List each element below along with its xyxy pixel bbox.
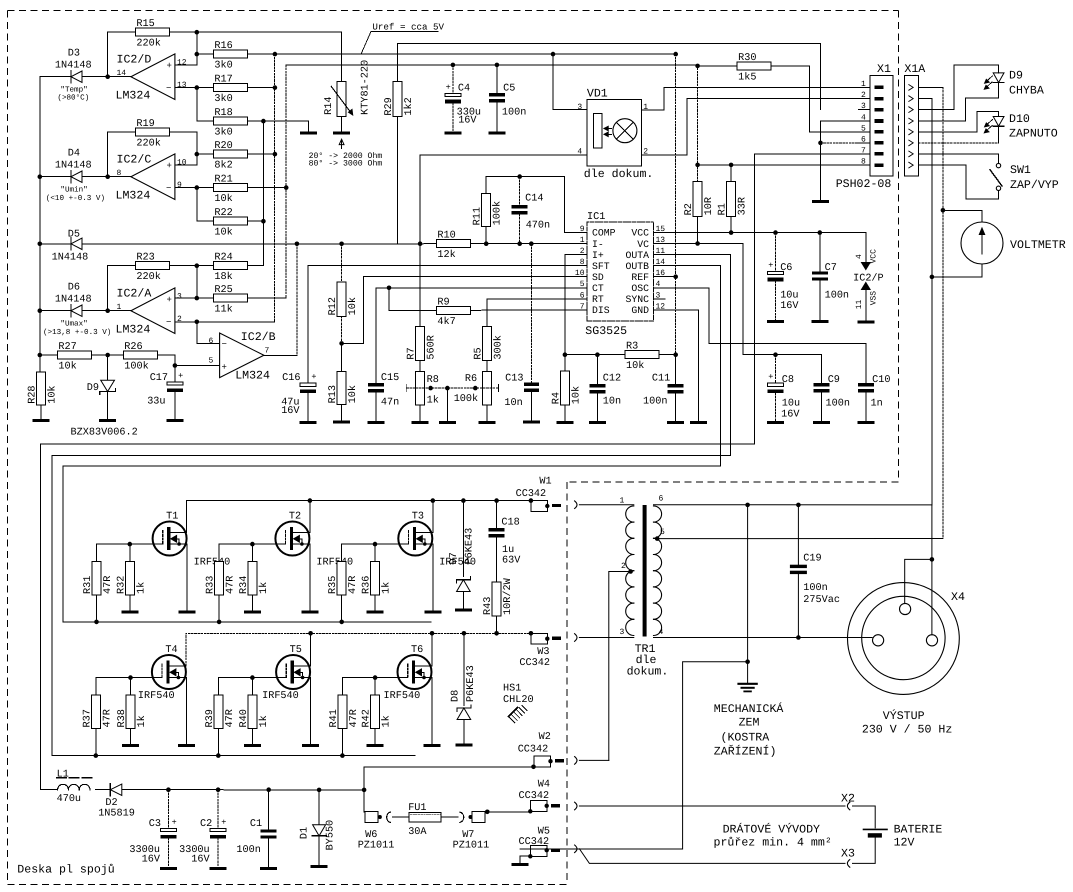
svg-text:R7: R7: [407, 347, 418, 359]
wire SW1 bottom to X1A pin8: [919, 165, 999, 199]
node R2 bottom VC: [695, 241, 700, 246]
svg-text:C5: C5: [503, 83, 515, 94]
wire TR1 pin2 tap: [628, 569, 633, 574]
wire R19 left to opamp output: [108, 132, 136, 177]
wire bus2 OUTA: [52, 455, 731, 755]
fuse FU1 30A: [393, 816, 410, 818]
svg-text:VOLTMETR: VOLTMETR: [1010, 239, 1066, 252]
wire IC2/B +input row: [175, 365, 220, 367]
wire R30 right to X1 pin5: [771, 66, 858, 132]
ground IC1 pin12: [690, 421, 707, 424]
node D4 opamp output: [105, 174, 110, 179]
capacitor C5: [496, 65, 498, 93]
svg-text:1k: 1k: [381, 582, 393, 594]
svg-text:C14: C14: [525, 194, 543, 205]
node R2 top pin8 row: [695, 163, 700, 168]
node R21 left / -input: [195, 185, 200, 190]
wire gnd vertical rail B: [262, 121, 264, 266]
ground R34: [244, 611, 261, 614]
svg-text:LM324: LM324: [235, 370, 270, 383]
svg-text:16V: 16V: [458, 116, 477, 127]
svg-text:T6: T6: [411, 645, 423, 656]
wire 12V rail horizontal: [286, 64, 697, 66]
svg-text:12k: 12k: [437, 249, 455, 261]
svg-text:HS1: HS1: [503, 684, 521, 695]
ground C11: [667, 421, 684, 424]
node R20-Vref: [273, 152, 278, 157]
wire gate row T4: [96, 677, 152, 679]
resistor R12: [341, 244, 343, 282]
connector X4 outer: [848, 583, 960, 695]
connector W3 CC342: [529, 631, 534, 636]
svg-text:10k: 10k: [58, 361, 76, 373]
node C17 top / +input: [173, 363, 178, 368]
IC IC1 SG3525 body: [587, 222, 654, 321]
wire R3 right to REF vertical: [659, 354, 676, 356]
trimmer R6: [482, 371, 491, 405]
svg-text:CT: CT: [592, 283, 604, 294]
node R3-REF-C11: [673, 352, 678, 357]
svg-text:T2: T2: [289, 512, 301, 523]
resistor R37: [95, 678, 97, 695]
svg-text:10k: 10k: [47, 385, 59, 403]
svg-text:"Umin": "Umin": [60, 186, 87, 195]
svg-text:C2: C2: [200, 819, 212, 830]
resistor R3: [625, 351, 659, 359]
svg-text:I+: I+: [592, 250, 604, 261]
svg-text:C6: C6: [780, 263, 792, 274]
ground C4: [444, 132, 461, 135]
svg-text:C15: C15: [381, 373, 399, 384]
svg-text:+: +: [167, 61, 172, 71]
node D6 opamp output: [105, 308, 110, 313]
capacitor C8: [775, 355, 777, 384]
svg-text:10k: 10k: [347, 385, 359, 403]
svg-text:220k: 220k: [136, 138, 160, 150]
svg-text:D9: D9: [87, 383, 99, 394]
resistor R24: [213, 262, 247, 270]
svg-text:T5: T5: [290, 645, 302, 656]
node REF pin16: [673, 274, 678, 279]
svg-text:D8: D8: [451, 690, 462, 702]
resistor R17: [213, 84, 247, 92]
resistor R41: [341, 678, 343, 695]
svg-text:2: 2: [621, 562, 626, 571]
ground C6: [767, 320, 784, 323]
op-amp IC2/B: [220, 333, 264, 378]
resistor R20: [213, 150, 247, 158]
svg-text:R42: R42: [362, 709, 373, 727]
svg-text:PSH02-08: PSH02-08: [836, 178, 892, 191]
ground D1: [311, 865, 328, 868]
transistor T4: [152, 655, 186, 689]
wire R15 right to R14: [169, 32, 341, 81]
fuse holder contact W6: [387, 812, 391, 823]
svg-text:COMP: COMP: [592, 228, 616, 239]
resistor R19: [135, 128, 169, 136]
svg-text:ZAŘÍZENÍ): ZAŘÍZENÍ): [714, 745, 777, 759]
svg-text:47R: 47R: [103, 576, 114, 594]
node D6 bus: [38, 308, 43, 313]
svg-text:D2: D2: [105, 798, 117, 809]
wire R29 bottom to row: [396, 117, 398, 244]
svg-text:(>13,8 +-0.3 V): (>13,8 +-0.3 V): [43, 328, 111, 337]
svg-text:IRF540: IRF540: [316, 558, 353, 569]
wire X4 right pin net: [930, 557, 935, 562]
svg-text:470u: 470u: [57, 794, 81, 805]
wire VD1 pin3 from Vref rail: [553, 54, 587, 109]
svg-text:1k: 1k: [258, 582, 270, 594]
svg-text:R18: R18: [214, 108, 232, 119]
svg-text:LM324: LM324: [116, 90, 151, 103]
wire VCC pin15 row: [676, 232, 866, 234]
transistor T6: [398, 655, 432, 689]
svg-text:13: 13: [177, 81, 187, 90]
wire R16 right to Vref rail: [247, 53, 275, 55]
wire drain T3: [431, 501, 434, 533]
capacitor C12: [596, 355, 598, 384]
svg-text:47R: 47R: [349, 709, 360, 727]
optocoupler VD1: [587, 99, 642, 166]
svg-text:LM324: LM324: [116, 190, 151, 203]
svg-text:470n: 470n: [526, 221, 550, 232]
X1 pin contacts: [875, 86, 884, 90]
wire IC2/B -input jog: [197, 322, 220, 344]
svg-text:R31: R31: [83, 576, 94, 594]
voltmeter P1: [961, 222, 1003, 264]
ground T6 source: [424, 744, 441, 747]
svg-text:(KOSTRA: (KOSTRA: [721, 732, 770, 745]
capacitor C13: [530, 244, 532, 383]
svg-text:CC342: CC342: [519, 658, 550, 669]
capacitor C10: [858, 383, 874, 386]
wire drain T5: [309, 633, 312, 666]
wire drain bus upper: [186, 501, 531, 533]
svg-text:(>80°C): (>80°C): [57, 94, 89, 103]
node D5 bus: [38, 242, 43, 247]
transistor T2: [275, 522, 309, 556]
capacitor C2: [216, 787, 221, 792]
svg-text:D4: D4: [68, 149, 80, 160]
svg-text:D10: D10: [1009, 113, 1030, 126]
svg-text:4k7: 4k7: [437, 316, 455, 328]
svg-text:1k: 1k: [258, 715, 270, 727]
svg-text:OUTB: OUTB: [625, 261, 649, 272]
svg-text:CC342: CC342: [519, 837, 550, 848]
svg-text:R34: R34: [239, 576, 250, 594]
wire R17 right to Vref rail: [247, 87, 275, 89]
wire source T5 to ground: [309, 678, 312, 745]
resistor R15: [135, 28, 169, 36]
svg-text:C17: C17: [150, 373, 168, 384]
ground D9: [99, 419, 116, 422]
svg-text:100n: 100n: [825, 290, 849, 301]
capacitor C4: [452, 65, 454, 93]
svg-text:R36: R36: [362, 576, 373, 594]
svg-text:1: 1: [643, 103, 648, 112]
wire X1A pin5 to LED D10: [919, 112, 999, 132]
transformer TR1 secondary: [654, 506, 662, 522]
svg-text:275Vac: 275Vac: [803, 595, 840, 606]
svg-text:R21: R21: [214, 175, 232, 186]
wire R18 right to ground: [247, 121, 308, 132]
svg-text:16V: 16V: [780, 301, 799, 312]
svg-text:R20: R20: [214, 141, 232, 152]
wire R26 right corner down: [157, 355, 175, 382]
node R16 left: [195, 52, 200, 57]
svg-text:12: 12: [177, 58, 187, 67]
wire 12V vertical rail C: [285, 65, 287, 298]
resistor R31: [96, 544, 98, 561]
svg-text:R38: R38: [117, 709, 128, 727]
wire source T6 to ground: [430, 678, 433, 745]
wire R25 right to 12V rail: [247, 297, 286, 299]
svg-text:C12: C12: [603, 374, 621, 385]
svg-text:Deska pl spojů: Deska pl spojů: [17, 864, 114, 877]
svg-text:IRF540: IRF540: [138, 691, 175, 702]
svg-text:IC1: IC1: [587, 212, 605, 223]
wire R15 left to opamp output: [108, 32, 136, 76]
svg-text:PZ1011: PZ1011: [358, 841, 395, 852]
svg-text:FU1: FU1: [408, 803, 426, 814]
svg-text:10k: 10k: [347, 297, 359, 315]
ground C15: [368, 421, 385, 424]
wire COMP pin9 up to C14 row: [564, 177, 567, 233]
resistor R28: [37, 372, 46, 405]
svg-text:R27: R27: [58, 342, 76, 353]
wire X1A pin7 to SW1: [919, 154, 999, 164]
voltmeter connection bottom: [932, 264, 982, 277]
node R25 left: [195, 296, 200, 301]
svg-text:D3: D3: [68, 49, 80, 60]
svg-text:1N4148: 1N4148: [52, 252, 89, 263]
wire W5 to ground: [520, 856, 530, 863]
resistor R40: [250, 675, 255, 680]
VD1 lamp: [613, 119, 637, 143]
resistor R21: [213, 184, 247, 192]
resistor R11: [482, 193, 491, 226]
wire source T3 to ground: [431, 544, 434, 611]
connector W1 CC342: [529, 498, 534, 503]
svg-text:I-: I-: [592, 239, 604, 250]
svg-text:P6KE43: P6KE43: [466, 665, 477, 702]
svg-text:průřez min. 4 mm²: průřez min. 4 mm²: [714, 836, 832, 849]
svg-text:10k: 10k: [626, 360, 644, 372]
svg-text:R39: R39: [205, 709, 216, 727]
svg-text:dokum.: dokum.: [627, 666, 669, 679]
node C8 top: [773, 352, 778, 357]
node mech ground row: [745, 659, 750, 664]
thermistor R14 KTY81-220: [337, 82, 346, 117]
wire R23 to R24 with +input tap: [169, 265, 213, 267]
transil D7 P6KE43: [461, 498, 466, 503]
node W6 tap: [362, 788, 367, 793]
connector X1A: [904, 76, 918, 176]
wire X1A pin3 to LED D9: [919, 65, 999, 110]
ground R4: [556, 421, 573, 424]
diode D3: [40, 76, 71, 78]
node R10 left / R7 top: [418, 241, 423, 246]
wire gate row T6: [342, 677, 397, 679]
ground C16: [300, 421, 317, 424]
svg-text:100n: 100n: [826, 398, 850, 409]
svg-text:CC342: CC342: [518, 745, 549, 756]
svg-text:R30: R30: [738, 53, 756, 64]
wire Vref vertical rail: [274, 54, 276, 322]
svg-text:+: +: [167, 295, 172, 305]
svg-text:16V: 16V: [781, 410, 800, 421]
svg-text:R14: R14: [324, 97, 335, 115]
svg-text:30A: 30A: [408, 827, 427, 838]
wire OUTB gate bus upper: [63, 621, 431, 623]
svg-text:100n: 100n: [803, 583, 827, 594]
wire CT pin5 route to C15: [376, 288, 565, 383]
ground C2: [210, 867, 227, 870]
node pin6 gnd: [818, 141, 823, 146]
svg-text:W6: W6: [365, 830, 377, 841]
resistor R33: [218, 544, 220, 561]
svg-text:100n: 100n: [236, 845, 260, 856]
resistor R16: [213, 50, 247, 58]
wire minus input row to R21: [175, 187, 214, 189]
svg-text:6: 6: [659, 495, 664, 504]
wire GND pin12 route: [676, 310, 699, 421]
node R27 bus / R28 top: [38, 353, 43, 358]
svg-text:+: +: [172, 817, 177, 827]
svg-text:R5: R5: [473, 347, 484, 359]
svg-text:33u: 33u: [147, 396, 165, 407]
svg-text:16V: 16V: [142, 855, 161, 866]
transformer TR1 core: [643, 505, 647, 637]
ground R28: [33, 419, 50, 422]
harness arrow W1-TR1 pin1: [575, 501, 577, 509]
capacitor C6: [773, 230, 778, 235]
LED D10 arrows: [987, 120, 993, 125]
svg-text:10k: 10k: [214, 193, 232, 205]
svg-text:"Temp": "Temp": [60, 86, 87, 95]
transistor T5: [276, 655, 310, 689]
svg-text:+: +: [446, 82, 451, 92]
svg-text:+: +: [222, 362, 227, 372]
capacitor C1: [266, 787, 271, 792]
IC1 right pin stubs: [654, 232, 677, 234]
svg-text:L1: L1: [57, 770, 69, 781]
capacitor C15: [368, 383, 384, 386]
ground wiper: [446, 388, 448, 421]
wire X1 pin8 row: [698, 164, 859, 166]
svg-text:−: −: [166, 83, 171, 93]
wire Vref rail horizontal: [275, 53, 676, 55]
svg-text:OSC: OSC: [631, 283, 649, 294]
svg-text:DRÁTOVÉ VÝVODY: DRÁTOVÉ VÝVODY: [723, 823, 820, 837]
svg-text:+: +: [221, 817, 226, 827]
svg-text:W1: W1: [539, 476, 551, 487]
node C19 top: [796, 503, 801, 508]
wire +input row to R25: [175, 297, 214, 299]
earth ground mech zem: [739, 683, 757, 685]
ground C3: [160, 867, 177, 870]
svg-text:+: +: [768, 260, 773, 270]
svg-text:VC: VC: [637, 239, 649, 250]
node mech ground tap: [745, 503, 750, 508]
wire SFT pin8 route to C16: [308, 266, 565, 383]
resistor R36: [373, 542, 378, 547]
wire R21 right to 12V rail: [247, 187, 286, 189]
svg-text:X1: X1: [877, 63, 891, 76]
svg-text:C19: C19: [803, 554, 821, 565]
resistor R1: [727, 181, 736, 216]
ground T3 source: [424, 611, 441, 614]
svg-text:SW1: SW1: [1010, 164, 1031, 177]
wire R23 left to opamp output: [108, 266, 136, 311]
svg-text:220k: 220k: [136, 38, 160, 50]
ground W5: [512, 863, 529, 866]
node R18 right: [261, 119, 266, 124]
node R30 left on 12V rail: [695, 64, 700, 69]
wire minus input row to R17: [175, 87, 214, 89]
ground C5: [488, 132, 505, 135]
svg-text:R32: R32: [116, 576, 127, 594]
ground R42: [367, 744, 384, 747]
svg-text:D6: D6: [68, 283, 80, 294]
svg-text:C8: C8: [782, 375, 794, 386]
connector X1 PSH02-08: [870, 76, 893, 176]
node R21-12V: [284, 185, 289, 190]
ground T1 source: [179, 611, 196, 614]
resistor R4: [560, 371, 569, 405]
svg-text:C16: C16: [282, 373, 300, 384]
ground C9: [813, 421, 830, 424]
power symbol IC2/P VSS: [862, 283, 871, 290]
svg-text:+: +: [167, 161, 172, 171]
capacitor C19: [797, 505, 799, 565]
wire OUTA gate bus lower: [52, 755, 415, 757]
resistor R29: [393, 82, 402, 117]
wire SD pin10 route: [342, 277, 565, 344]
wire REF vertical pin16: [675, 54, 677, 355]
svg-text:+: +: [178, 371, 183, 381]
svg-text:560R: 560R: [427, 335, 438, 359]
node -input to IC2/B: [195, 320, 200, 325]
wire mech ground vertical: [747, 505, 749, 683]
wire D9 cathode to X1A pin4: [919, 83, 999, 122]
svg-text:230 V / 50 Hz: 230 V / 50 Hz: [862, 724, 952, 737]
svg-text:3k0: 3k0: [214, 60, 232, 72]
svg-text:10n: 10n: [603, 396, 621, 407]
trimmer R8: [419, 361, 421, 372]
wire IC2/A -input row to Vref: [175, 321, 275, 323]
svg-text:T4: T4: [165, 645, 177, 656]
svg-text:47R: 47R: [102, 709, 113, 727]
wire source T1 to ground: [185, 544, 188, 611]
svg-text:33R: 33R: [738, 197, 749, 215]
resistor R32: [128, 542, 133, 547]
svg-text:R4: R4: [551, 392, 562, 404]
svg-text:ZAPNUTO: ZAPNUTO: [1009, 127, 1058, 140]
wire drain bus lower: [186, 633, 531, 666]
svg-text:5: 5: [660, 528, 665, 537]
svg-text:1n: 1n: [871, 398, 883, 409]
svg-text:R12: R12: [328, 297, 339, 315]
capacitor C18: [494, 498, 499, 503]
wire W4 harness arrow: [575, 802, 577, 810]
svg-text:W3: W3: [537, 647, 549, 658]
wire RT pin6 route to R5: [487, 299, 565, 327]
connector W7 PZ1011: [469, 815, 473, 819]
wire W7 to W4 and up: [485, 811, 531, 813]
svg-text:R19: R19: [136, 119, 154, 130]
svg-text:7: 7: [265, 347, 270, 356]
